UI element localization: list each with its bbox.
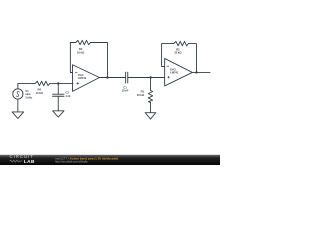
svg-text:http://circuitlab.com/c6hq4p: http://circuitlab.com/c6hq4p [55, 159, 88, 163]
svg-text:22 kΩ: 22 kΩ [174, 51, 182, 55]
svg-text:1 nF: 1 nF [65, 94, 71, 98]
svg-text:1 kHz: 1 kHz [25, 96, 33, 100]
svg-text:10 kΩ: 10 kΩ [77, 51, 85, 55]
svg-text:10 nF: 10 nF [122, 89, 129, 93]
svg-text:LAB: LAB [24, 159, 35, 164]
svg-text:10 kΩ: 10 kΩ [36, 91, 44, 95]
svg-text:22 kΩ: 22 kΩ [137, 93, 145, 97]
svg-text:LM741: LM741 [78, 76, 87, 80]
svg-text:LM741: LM741 [170, 71, 179, 75]
